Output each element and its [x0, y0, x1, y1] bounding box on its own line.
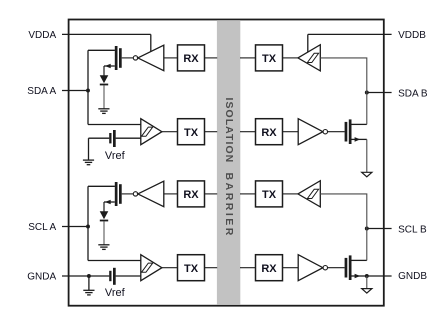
op-amp SDA-A transmit Schmitt comparator [141, 119, 162, 145]
wire SDA-A transmit: comparator output to TX [162, 131, 178, 133]
transistor SCL-B receive open-drain MOSFET (side B) [345, 255, 367, 280]
svg-text:RX: RX [183, 53, 199, 65]
RX block SDA-B receive [256, 119, 283, 145]
svg-text:SCL A: SCL A [28, 222, 56, 233]
TX block SCL-A transmit [178, 255, 205, 281]
wire SCL-B receive: MOSFET drain up to bus junction [366, 229, 368, 261]
wire SDA-A transmit: Vref branch to comparator reference input [89, 137, 110, 139]
wire SCL-A receive: vertical from pin junction up to MOSFET source / down to comparator input [87, 186, 89, 260]
isolation barrier bar [217, 20, 240, 305]
ground SDA-B receive (side B) [362, 172, 372, 177]
wire SDA-B receive: inverter to MOSFET gate [328, 131, 345, 133]
svg-text:Vref: Vref [105, 287, 126, 299]
pin VDDB wire [308, 33, 392, 35]
op-amp SDA-B receive gate-drive inverter (triangle + bubble) [298, 119, 327, 145]
wire SCL-B transmit: buffer output to TX input [283, 193, 299, 195]
wire SCL-B receive: inverter to MOSFET gate [328, 267, 345, 269]
TX block SDA-A transmit [178, 119, 205, 145]
pin SCL B wire [367, 228, 392, 230]
wire VDDA rail into inverter supply [150, 34, 152, 51]
ground SDA-A transmit Vref [83, 160, 94, 165]
wire SDA-B receive: MOSFET source to ground [366, 139, 368, 172]
wire SDA-A receive: MOSFET source lead [88, 49, 115, 51]
wire SCL-A transmit: TX to isolation barrier [205, 267, 218, 269]
wire SDA-A receive: RX to isolation barrier [205, 57, 218, 59]
svg-text:RX: RX [261, 263, 277, 275]
node SCL B junction [365, 227, 369, 231]
wire SCL-A receive: inverter input from RX [164, 193, 178, 195]
svg-text:RX: RX [183, 189, 199, 201]
ground SCL-B (side B) [362, 289, 372, 294]
battery Vref SDA-A transmit [109, 130, 116, 147]
wire SCL-B transmit: isolation barrier to TX [240, 193, 256, 195]
wire SDA-B receive: RX to inverter [283, 131, 299, 133]
wire SCL-B transmit: buffer input from bus line [320, 194, 367, 229]
ground SDA-A receive (side A) [98, 109, 109, 114]
wire SCL-B receive: isolation barrier to RX [240, 267, 256, 269]
svg-text:ISOLATION: ISOLATION [223, 97, 235, 163]
wire SDA-B transmit: isolation barrier to TX [240, 57, 256, 59]
transistor SCL-A receive open-drain MOSFET [104, 182, 122, 206]
node SDA A junction [86, 89, 90, 93]
wire SDA-A transmit: TX to isolation barrier [205, 131, 218, 133]
wire VDDB rail into buffer supply [307, 34, 309, 52]
ground GNDA [83, 290, 94, 295]
op-amp SCL-A receive gate-drive inverter (bubble + triangle) [133, 181, 164, 207]
wire SCL-B receive: RX to inverter [283, 267, 299, 269]
wire SCL-A receive: drain to diode [103, 202, 105, 213]
wire SCL-A transmit: comparator output to TX [162, 267, 178, 269]
wire SDA-A transmit: comparator signal input [88, 124, 141, 126]
RX block SDA-A receive [178, 45, 205, 71]
TX block SDA-B transmit [256, 45, 283, 71]
pin GNDB wire [367, 275, 392, 277]
wire SDA-A receive: drain to diode [103, 66, 105, 77]
transistor SDA-A receive open-drain MOSFET [104, 46, 122, 70]
wire SCL-A receive: MOSFET source lead [88, 185, 115, 187]
wire SDA-A receive: diode cathode to ground [103, 85, 105, 108]
svg-text:TX: TX [262, 53, 277, 65]
diode SDA-A receive clamp diode [100, 75, 109, 85]
op-amp SDA-B transmit Schmitt input buffer [298, 45, 320, 71]
transistor SDA-B receive open-drain MOSFET (side B) [345, 119, 367, 144]
RX block SCL-A receive [178, 181, 205, 207]
svg-text:VDDB: VDDB [398, 30, 426, 41]
wire GNDA to ground symbol [88, 276, 90, 290]
diode SCL-A receive clamp diode [100, 211, 109, 221]
svg-text:SDA B: SDA B [398, 88, 428, 99]
op-amp SCL-A transmit Schmitt comparator [141, 255, 162, 281]
node GNDB junction [365, 274, 369, 278]
wire SCL-B receive MOSFET source ground stub [366, 276, 368, 289]
pin VDDA wire [62, 33, 151, 35]
op-amp SCL-B transmit Schmitt input buffer [298, 181, 320, 207]
node SCL A junction [86, 225, 90, 229]
wire SCL-A receive: inverter output to MOSFET gate [122, 193, 134, 195]
TX block SCL-B transmit [256, 181, 283, 207]
pin SCL A wire [62, 226, 88, 228]
svg-text:GNDA: GNDA [27, 271, 56, 282]
ground SCL-A receive (side A) [98, 245, 109, 250]
pin SDA A wire [62, 90, 88, 92]
svg-text:SCL B: SCL B [398, 225, 427, 236]
wire SDA-B transmit: buffer input from bus line [320, 58, 367, 93]
wire SCL-A transmit comparator reference from GNDA line [116, 275, 141, 277]
svg-text:TX: TX [184, 263, 199, 275]
pin GNDA wire [62, 275, 109, 277]
battery Vref SCL-A transmit [109, 268, 116, 285]
node SDA B junction [365, 91, 369, 95]
wire SDA-A receive: inverter output to MOSFET gate [122, 57, 134, 59]
pin SDA B wire [367, 92, 392, 94]
RX block SCL-B receive [256, 255, 283, 281]
svg-text:TX: TX [184, 127, 199, 139]
wire SDA-B receive: MOSFET drain up to bus junction [366, 93, 368, 125]
wire SDA-B receive: isolation barrier to RX [240, 131, 256, 133]
svg-text:SDA A: SDA A [27, 86, 56, 97]
outer device boundary box [69, 20, 384, 306]
svg-text:RX: RX [261, 127, 277, 139]
node GNDA junction [87, 274, 91, 278]
wire SCL-A receive: diode cathode to ground [103, 221, 105, 244]
svg-text:Vref: Vref [105, 150, 126, 162]
svg-text:TX: TX [262, 189, 277, 201]
svg-text:VDDA: VDDA [28, 30, 56, 41]
wire SDA-A receive: vertical from pin junction up to MOSFET source / down to comparator input [87, 50, 89, 124]
wire SDA-B transmit: buffer output to TX input [283, 57, 299, 59]
wire SDA-A transmit: Vref return to ground [88, 138, 90, 160]
wire SDA-A receive: inverter input from RX [164, 57, 178, 59]
wire SCL-A transmit: comparator signal input [88, 260, 141, 262]
svg-text:BARRIER: BARRIER [223, 173, 235, 238]
wire SCL-A receive: RX to isolation barrier [205, 193, 218, 195]
op-amp SCL-B receive gate-drive inverter (triangle + bubble) [298, 255, 327, 281]
op-amp SDA-A receive gate-drive inverter (bubble + triangle) [133, 45, 164, 70]
svg-text:GNDB: GNDB [398, 271, 427, 282]
